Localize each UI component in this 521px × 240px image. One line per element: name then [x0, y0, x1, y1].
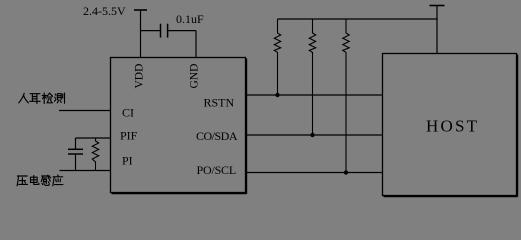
glyph 测 [55, 93, 65, 103]
svg-text:CI: CI [122, 106, 134, 120]
wire VDD vertical from supply to VDD pin [140, 10, 142, 57]
pin label GND (rotated) [189, 64, 201, 89]
value label 0.1uF [176, 12, 204, 26]
svg-text:PIF: PIF [120, 129, 138, 143]
pin label CO/SDA [196, 129, 238, 143]
svg-text:2.4-5.5V: 2.4-5.5V [83, 4, 126, 18]
pull-up top rail [278, 18, 438, 20]
power rail bar VDD supply [134, 9, 147, 11]
pin label CI [122, 106, 134, 120]
power supply label 2.4-5.5V [83, 4, 126, 18]
svg-text:GND: GND [189, 64, 201, 89]
svg-text:0.1uF: 0.1uF [176, 12, 204, 26]
wire PO/SCL [246, 172, 383, 174]
IC chip box U1 [111, 58, 247, 194]
power rail bar (host side supply) [430, 5, 445, 7]
glyph 压 [17, 176, 27, 186]
junction node PO/SCL [344, 170, 348, 174]
svg-text:RSTN: RSTN [204, 96, 235, 110]
glyph 电 [31, 175, 39, 184]
svg-text:HOST: HOST [426, 117, 479, 136]
svg-text:PO/SCL: PO/SCL [197, 163, 236, 177]
resistor R4 (piezo parallel) [92, 138, 98, 171]
wire PIF top (cap/res parallel top) [76, 137, 111, 139]
pin label PO/SCL [197, 163, 236, 177]
glyph 耳 [30, 94, 41, 104]
capacitor C1 0.1uF plates [161, 24, 168, 38]
wire CO/SDA [246, 134, 383, 136]
label 压电感应 (piezoelectric sensing), drawn glyphs [17, 175, 63, 186]
junction node CO/SDA [310, 133, 314, 137]
wire capacitor branch right [168, 30, 196, 32]
wire GND vertical to GND pin [195, 31, 197, 57]
glyph 应 [53, 175, 63, 186]
svg-text:PI: PI [122, 154, 133, 168]
svg-text:VDD: VDD [134, 64, 146, 89]
resistor R2 (pull-up CO/SDA) [309, 19, 315, 135]
pin label VDD (rotated) [134, 64, 146, 89]
label 入耳检测 (in-ear detection), drawn glyphs [19, 93, 65, 104]
wire CI input [59, 110, 111, 112]
wire host supply vertical [436, 6, 438, 54]
glyph 检 [42, 93, 53, 104]
resistor R1 (pull-up RSTN) [274, 19, 280, 95]
resistor R3 (pull-up PO/SCL) [343, 19, 349, 173]
HOST box [383, 54, 518, 197]
pin label PI [122, 154, 133, 168]
capacitor C2 (piezo) [68, 138, 83, 171]
glyph 入 [19, 93, 29, 103]
pin label RSTN [204, 96, 235, 110]
junction node RSTN [275, 93, 279, 97]
glyph 感 [41, 175, 50, 185]
wire RSTN [246, 94, 383, 96]
label HOST [426, 117, 479, 136]
wire PI bottom (cap/res parallel bottom) [60, 170, 111, 172]
wire capacitor branch left [141, 30, 161, 32]
svg-text:CO/SDA: CO/SDA [196, 129, 238, 143]
pin label PIF [120, 129, 138, 143]
